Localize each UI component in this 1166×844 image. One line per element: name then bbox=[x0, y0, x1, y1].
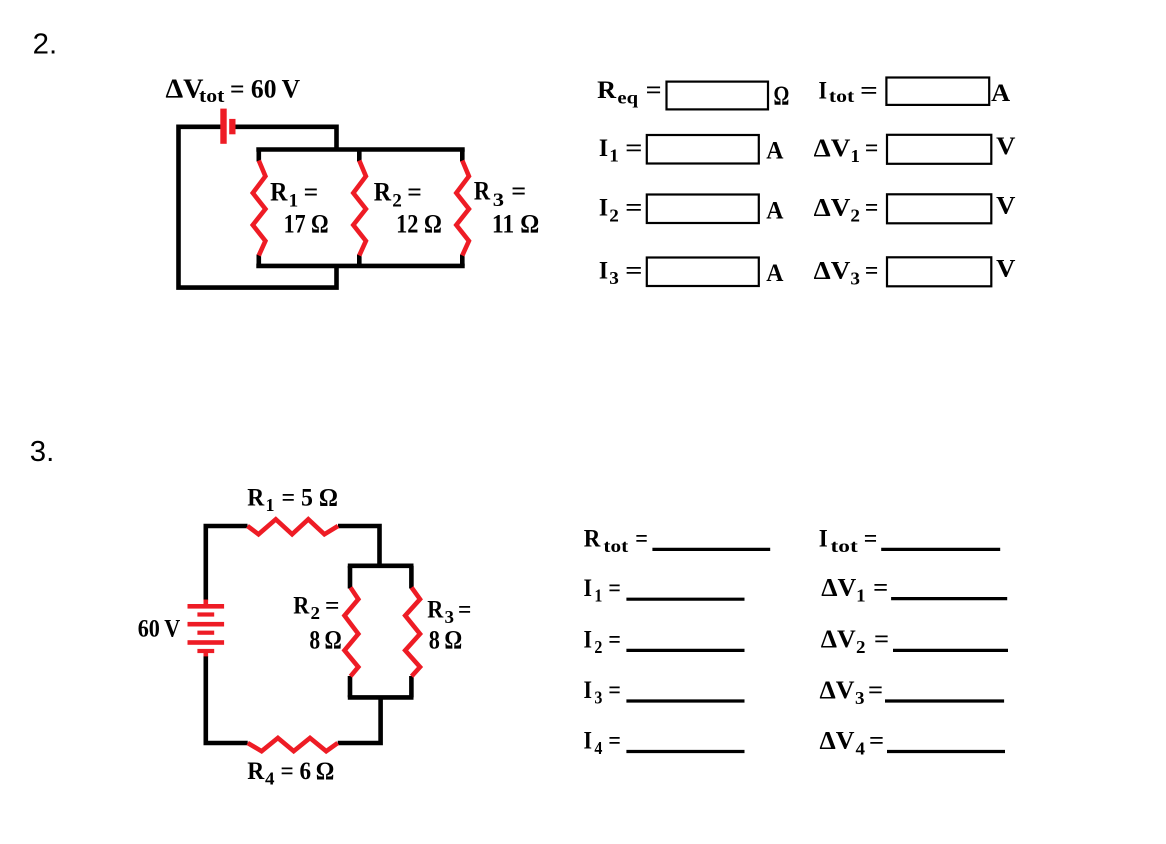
svg-text:1: 1 bbox=[594, 586, 602, 606]
svg-text:R: R bbox=[247, 758, 265, 785]
svg-text:I: I bbox=[599, 257, 608, 284]
svg-text:2: 2 bbox=[594, 637, 602, 657]
svg-text:tot: tot bbox=[829, 86, 854, 106]
svg-text:2: 2 bbox=[311, 603, 321, 623]
svg-text:=: = bbox=[646, 77, 662, 104]
svg-text:tot: tot bbox=[199, 86, 225, 107]
svg-text:R: R bbox=[597, 77, 617, 104]
svg-text:=: = bbox=[625, 195, 642, 222]
svg-text:R: R bbox=[270, 177, 288, 206]
svg-text:V: V bbox=[996, 256, 1015, 283]
svg-text:=: = bbox=[625, 257, 642, 284]
svg-text:R: R bbox=[374, 177, 392, 206]
svg-text:8 Ω: 8 Ω bbox=[309, 626, 341, 655]
svg-text:tot: tot bbox=[831, 536, 858, 556]
svg-text:eq: eq bbox=[617, 88, 638, 108]
svg-text:= 6 Ω: = 6 Ω bbox=[281, 758, 335, 785]
svg-text:=: = bbox=[608, 575, 621, 602]
svg-text:V: V bbox=[996, 133, 1015, 160]
svg-text:I: I bbox=[819, 526, 828, 553]
svg-text:1: 1 bbox=[609, 146, 619, 166]
svg-text:ΔV: ΔV bbox=[820, 728, 855, 755]
svg-text:=: = bbox=[865, 195, 879, 222]
svg-text:ΔV: ΔV bbox=[821, 575, 856, 602]
svg-text:17 Ω: 17 Ω bbox=[284, 209, 329, 238]
svg-text:=: = bbox=[325, 593, 340, 620]
svg-text:I: I bbox=[599, 195, 608, 222]
svg-text:2: 2 bbox=[856, 637, 866, 657]
svg-text:2: 2 bbox=[850, 206, 860, 226]
svg-text:2: 2 bbox=[609, 205, 619, 225]
svg-text:=: = bbox=[511, 177, 526, 206]
svg-text:4: 4 bbox=[856, 738, 866, 758]
svg-text:A: A bbox=[991, 80, 1010, 107]
svg-text:12 Ω: 12 Ω bbox=[396, 209, 442, 238]
svg-text:3: 3 bbox=[855, 688, 865, 708]
svg-text:I: I bbox=[584, 627, 593, 654]
svg-text:R: R bbox=[584, 526, 601, 553]
svg-text:60 V: 60 V bbox=[138, 616, 181, 643]
svg-text:I: I bbox=[599, 135, 608, 162]
svg-text:3.: 3. bbox=[30, 436, 55, 468]
svg-text:ΔV: ΔV bbox=[814, 195, 851, 222]
svg-text:ΔV: ΔV bbox=[814, 135, 851, 162]
svg-text:I: I bbox=[584, 728, 593, 755]
svg-text:=: = bbox=[873, 575, 888, 602]
svg-text:=: = bbox=[864, 526, 878, 553]
svg-text:I: I bbox=[819, 77, 828, 104]
svg-text:ΔV: ΔV bbox=[821, 626, 856, 653]
svg-text:=: = bbox=[874, 626, 889, 653]
svg-text:=: = bbox=[608, 627, 621, 654]
svg-text:R: R bbox=[293, 593, 310, 620]
svg-text:3: 3 bbox=[445, 607, 455, 627]
svg-text:tot: tot bbox=[603, 536, 628, 556]
svg-text:=: = bbox=[608, 677, 621, 704]
svg-text:=: = bbox=[608, 728, 621, 755]
svg-text:3: 3 bbox=[850, 268, 860, 288]
svg-text:=: = bbox=[860, 77, 878, 104]
svg-text:8 Ω: 8 Ω bbox=[429, 626, 462, 655]
svg-text:1: 1 bbox=[850, 146, 860, 166]
svg-text:= 60 V: = 60 V bbox=[230, 75, 300, 104]
svg-text:3: 3 bbox=[609, 268, 619, 288]
svg-text:=: = bbox=[304, 177, 319, 206]
svg-text:Ω: Ω bbox=[774, 80, 790, 110]
svg-text:1: 1 bbox=[266, 495, 275, 515]
svg-text:A: A bbox=[766, 138, 783, 165]
svg-text:= 5 Ω: = 5 Ω bbox=[282, 485, 339, 512]
svg-text:=: = bbox=[407, 177, 422, 206]
svg-text:A: A bbox=[766, 260, 783, 287]
svg-text:R: R bbox=[474, 177, 490, 206]
svg-text:=: = bbox=[865, 258, 879, 285]
svg-text:=: = bbox=[458, 597, 471, 624]
svg-text:ΔV: ΔV bbox=[820, 677, 855, 704]
svg-text:3: 3 bbox=[594, 688, 602, 708]
svg-text:A: A bbox=[766, 197, 783, 224]
svg-text:V: V bbox=[996, 193, 1015, 220]
svg-text:3: 3 bbox=[493, 190, 504, 211]
svg-text:=: = bbox=[865, 135, 879, 162]
svg-text:R: R bbox=[247, 485, 265, 512]
svg-text:=: = bbox=[625, 135, 642, 162]
svg-text:I: I bbox=[584, 677, 593, 704]
svg-text:=: = bbox=[869, 728, 884, 755]
svg-text:2.: 2. bbox=[33, 29, 58, 61]
svg-text:R: R bbox=[427, 597, 444, 624]
svg-text:11 Ω: 11 Ω bbox=[492, 209, 539, 238]
svg-text:ΔV: ΔV bbox=[814, 258, 851, 285]
svg-text:1: 1 bbox=[856, 585, 866, 605]
svg-text:=: = bbox=[868, 677, 883, 704]
svg-text:I: I bbox=[584, 575, 593, 602]
svg-text:4: 4 bbox=[265, 769, 275, 789]
svg-text:=: = bbox=[635, 526, 648, 553]
svg-text:4: 4 bbox=[594, 738, 602, 758]
